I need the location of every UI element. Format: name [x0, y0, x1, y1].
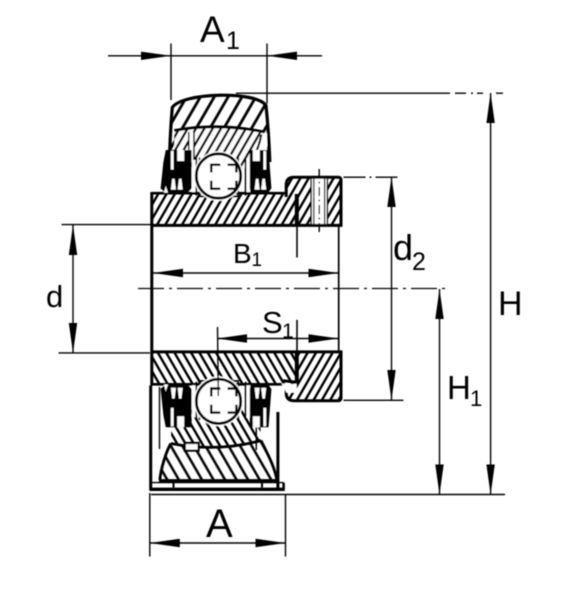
dimension S1 — [217, 305, 339, 396]
base band top line — [152, 482, 284, 484]
bottom bell base line — [159, 479, 277, 482]
seal right body — [250, 150, 272, 193]
inner ring right face notch (bottom) — [282, 320, 298, 393]
cage line left outer — [195, 158, 197, 196]
outer ring top dome hatch — [169, 95, 269, 168]
svg-text:1: 1 — [252, 250, 263, 271]
bearing core (seals, cage, ball) top — [161, 150, 272, 201]
cage line under ball — [198, 195, 239, 197]
bore line bottom — [152, 350, 343, 353]
dimension H1 — [435, 289, 482, 495]
outer ring bottom bell right side — [261, 441, 277, 480]
seal gap top-right — [250, 134, 267, 163]
seal left slit upper 1 — [171, 151, 174, 170]
seal right slit upper 2 — [253, 150, 260, 161]
seal right slit lower 1 — [261, 179, 266, 190]
svg-text:1: 1 — [470, 386, 482, 411]
svg-text:1: 1 — [282, 320, 294, 343]
ball — [196, 154, 240, 198]
seal left foot notch — [164, 186, 168, 193]
margin line bottom-left — [159, 387, 161, 449]
outer ring raceway band bottom — [171, 409, 261, 448]
cage line right outer — [245, 158, 247, 196]
inner ring section bottom bar — [152, 352, 295, 384]
dimension d — [46, 225, 151, 353]
seal right slit upper 1 — [264, 151, 267, 170]
svg-text:d: d — [46, 279, 63, 314]
cage line right inner — [237, 158, 239, 196]
seal left body — [161, 150, 192, 193]
svg-text:2: 2 — [412, 248, 426, 276]
set screw axis (top collar) — [318, 169, 320, 234]
housing box left edge bottom — [149, 386, 152, 490]
dimension B1 — [153, 226, 339, 351]
seal left slit lower 1 — [171, 179, 176, 190]
margin line bottom-right — [255, 424, 257, 450]
ball halo — [194, 151, 244, 201]
inner ring right face (top) — [295, 194, 299, 258]
white pocket right — [246, 160, 250, 192]
svg-text:B: B — [233, 238, 252, 269]
svg-text:S: S — [262, 305, 283, 340]
dimension A — [150, 493, 286, 557]
dimension A1 — [108, 9, 322, 104]
bottom reference line — [151, 494, 505, 496]
outer ring boundary arc top — [174, 127, 263, 132]
housing box right edge bottom — [276, 412, 279, 490]
svg-text:d: d — [393, 227, 413, 268]
white pocket left — [192, 160, 197, 192]
base band divider left — [173, 483, 175, 488]
inner ring section top bar — [152, 193, 295, 225]
outer ring bottom bell arc — [171, 441, 261, 448]
outer ring bottom bell hatch — [160, 441, 277, 480]
seal left slit lower 2 — [178, 179, 183, 190]
svg-text:H: H — [498, 285, 523, 323]
svg-text:H: H — [447, 369, 471, 406]
top reference line for H — [236, 92, 503, 94]
inner ring bottom bar bottom edge — [152, 383, 284, 386]
seal slit channel top-left — [189, 132, 195, 161]
ball dashed square — [211, 165, 236, 189]
svg-text:1: 1 — [226, 27, 240, 55]
outer ring raceway band top — [174, 127, 263, 169]
base band bottom line — [149, 488, 284, 491]
svg-text:A: A — [206, 502, 233, 546]
bearing core (seals, cage, ball) bottom (mirrored) — [161, 376, 272, 427]
eccentric locking collar (top) — [286, 177, 341, 225]
inner ring top bar top edge — [152, 192, 287, 195]
outer ring bottom bell left side — [160, 444, 171, 480]
base band right edge — [282, 483, 285, 490]
seal left slit upper 2 — [177, 150, 184, 161]
dimension d2 — [344, 177, 426, 400]
outer ring top dome outline — [169, 95, 269, 162]
bore line top — [152, 224, 343, 227]
eccentric locking collar (bottom) — [286, 352, 341, 401]
seal carrier tab bottom — [185, 443, 199, 451]
centre line — [138, 288, 449, 290]
svg-text:A: A — [200, 9, 225, 50]
base band divider right — [261, 483, 263, 488]
seal right slit lower 2 — [255, 179, 260, 190]
dimension H — [486, 93, 522, 495]
cage line left inner — [199, 158, 201, 196]
inner ring left face — [150, 192, 153, 386]
